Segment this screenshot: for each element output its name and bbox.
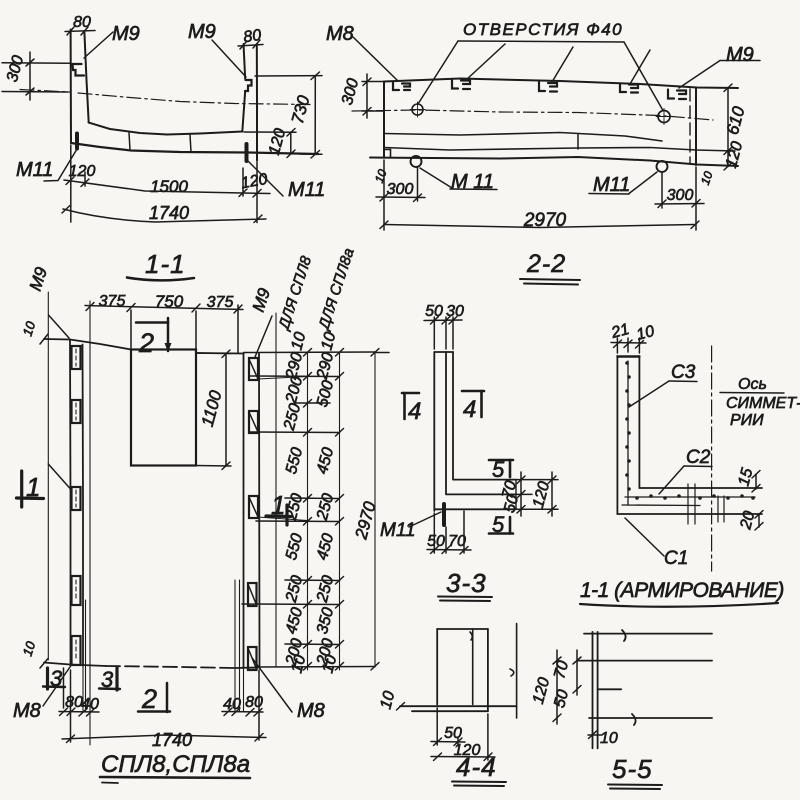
svg-text:М9: М9 <box>726 44 754 66</box>
L leg inner line <box>639 356 762 488</box>
svg-text:70: 70 <box>448 533 466 550</box>
chain1 values <box>281 330 310 675</box>
svg-text:120: 120 <box>69 163 96 180</box>
dim 120 <box>431 714 495 761</box>
dim 2970 <box>380 210 699 231</box>
right 120 dim line <box>266 127 295 158</box>
right wall outer line <box>256 44 258 161</box>
ext line left wall bottom <box>85 600 87 712</box>
section mark 2 bottom <box>138 683 170 714</box>
vertical line 1 <box>436 629 438 705</box>
bottom dims 40/80 right <box>222 694 263 716</box>
right dims 70/50 <box>499 472 558 516</box>
svg-text:1: 1 <box>26 472 40 502</box>
right wall inner line <box>242 44 245 132</box>
leader M11 left <box>44 149 77 181</box>
SECTION-A : section 1-1 top-left <box>2 14 325 223</box>
horizontal top with break <box>584 630 712 641</box>
right 610/120 dim <box>723 84 749 170</box>
plan bottom edge extension <box>259 666 375 669</box>
title 2-2 <box>520 250 580 285</box>
svg-text:ОТВЕРСТИЯ Ф40: ОТВЕРСТИЯ Ф40 <box>463 20 623 39</box>
dim 20 right <box>737 509 763 532</box>
chain ticks row 666 <box>304 663 380 671</box>
svg-text:1740: 1740 <box>149 203 189 223</box>
fan leader to mark B <box>466 44 505 80</box>
section mark 3 right <box>99 667 120 692</box>
svg-text:2: 2 <box>141 684 157 714</box>
anchor M11 right tick <box>245 144 249 161</box>
left wall top dim 80 <box>65 14 95 35</box>
left wall outer line <box>70 30 72 144</box>
anchor circle bottom-right <box>657 161 668 172</box>
slab joint tick 1 <box>129 133 130 151</box>
svg-text:М9: М9 <box>188 21 216 43</box>
section mark 3 left <box>43 666 65 691</box>
dim 70/50 left <box>551 650 581 710</box>
slab bottom edge <box>71 143 318 154</box>
vertical line right boundary <box>510 624 517 719</box>
svg-text:4: 4 <box>408 398 421 425</box>
svg-text:М8: М8 <box>297 700 325 722</box>
dim 1740 bottom <box>62 670 266 750</box>
hole circle right <box>658 111 670 123</box>
plan top edge extension to chains <box>244 351 376 354</box>
left bottom step <box>384 150 391 158</box>
section mark 5 top <box>489 457 513 482</box>
dim 10 bottom <box>588 730 618 747</box>
ext line pair right wall bottom <box>235 580 240 712</box>
title 4-4 <box>452 752 506 786</box>
bottom dim extensions <box>71 145 257 223</box>
mesh C2 line <box>622 504 700 507</box>
chain line 2 <box>339 352 341 670</box>
svg-text:1740: 1740 <box>152 730 192 750</box>
right 730 dim line <box>288 72 320 158</box>
chain tick row 403 <box>296 400 330 408</box>
svg-text:М9: М9 <box>112 23 140 45</box>
svg-text:50: 50 <box>425 303 443 320</box>
title 5-5 <box>608 754 662 789</box>
opening rectangle <box>131 350 196 466</box>
chain line 1 <box>307 352 309 670</box>
embed mark B <box>452 80 470 90</box>
dim 120 left <box>530 650 561 724</box>
svg-text:3: 3 <box>101 667 114 692</box>
left 300 dim line <box>4 52 34 100</box>
M9 extension line left <box>47 292 49 660</box>
bottom dim line 1740 <box>62 203 266 223</box>
svg-text:40: 40 <box>81 696 99 713</box>
leader to left plate 3 <box>48 464 70 489</box>
chain ticks row 578 <box>285 577 344 585</box>
leader M11 <box>409 512 441 527</box>
dim 15 right <box>735 466 760 492</box>
section mark 4 left <box>402 393 421 425</box>
right plate 2 <box>249 411 258 433</box>
anchor M11 tick <box>442 504 446 525</box>
left wall outer line <box>69 340 72 667</box>
svg-text:80: 80 <box>242 27 262 46</box>
leader M11 right <box>589 193 629 196</box>
bottom dim 50/70 <box>427 511 471 554</box>
body right inner line <box>689 89 691 164</box>
chain ticks row 602 <box>242 601 344 609</box>
horizontal line short <box>412 710 488 712</box>
L leg top edge <box>617 355 639 357</box>
left 300 vertical dim <box>339 74 386 118</box>
bottom dim line 120/1500/120 <box>64 163 270 197</box>
svg-text:СПЛ8,СПЛ8а: СПЛ8,СПЛ8а <box>101 751 250 778</box>
interior line lower <box>384 148 735 152</box>
leader to right hole <box>624 42 663 111</box>
dim ext line x90 <box>89 301 91 745</box>
L leg outer line <box>617 356 762 514</box>
mesh C3 vertical line with bars <box>625 361 631 505</box>
embed plate step M9 right <box>245 80 252 91</box>
left wall inner line <box>84 32 88 123</box>
right plate 5 <box>248 647 257 670</box>
leader M9 left <box>84 32 113 58</box>
vertical line 2 with break <box>470 629 473 705</box>
L profile right end <box>515 480 517 510</box>
svg-text:30: 30 <box>446 303 464 320</box>
right 730 dim extension lines <box>255 76 322 155</box>
vertical line 3 <box>487 629 489 711</box>
leader M11 right <box>248 161 283 196</box>
svg-text:2: 2 <box>138 328 154 358</box>
label Os' simmetrii <box>720 376 800 429</box>
title 1-1 (ARMIROVANIE) <box>580 579 784 607</box>
horizontal short <box>598 688 622 690</box>
chain ticks row 432 <box>249 429 344 437</box>
wall double line <box>593 632 598 749</box>
tick top-left corner <box>40 334 48 344</box>
title SPL8,SPL8a <box>100 751 250 783</box>
right 300 bottom dim <box>655 167 704 230</box>
chain ext line M9 right <box>275 313 277 667</box>
horizontal second <box>577 660 712 662</box>
horizontal line long <box>400 705 517 707</box>
svg-text:300: 300 <box>667 187 694 204</box>
top edge <box>437 628 488 630</box>
leader M9 left <box>49 315 70 338</box>
section mark 1 right <box>266 490 291 525</box>
section mark 4 right <box>462 391 484 423</box>
break marks <box>688 484 695 524</box>
SECTION-D : section 3-3 <box>376 303 558 601</box>
leader M11 left <box>450 188 497 191</box>
section mark 5 bottom <box>489 512 513 537</box>
left 300 dim extension lines <box>2 63 70 92</box>
leader to left hole <box>418 41 458 104</box>
svg-text:4-4: 4-4 <box>456 752 497 782</box>
svg-text:300: 300 <box>387 181 414 198</box>
interior line mid <box>384 133 662 142</box>
embed mark D <box>620 84 638 93</box>
svg-text:М8: М8 <box>13 700 41 722</box>
L profile outer lines <box>434 352 516 511</box>
svg-text:Ось: Ось <box>738 376 767 393</box>
interior line upper (dash-dot centerline) <box>352 110 713 120</box>
svg-text:5-5: 5-5 <box>612 754 653 784</box>
leader M8 left <box>43 667 70 706</box>
left plate 4 <box>72 576 81 605</box>
right wall top dim 80 <box>238 27 263 49</box>
left plate 5 <box>72 636 81 665</box>
anchor circle bottom-left <box>411 156 422 167</box>
svg-text:2970: 2970 <box>523 210 567 231</box>
hole circle left <box>412 104 423 115</box>
svg-text:375: 375 <box>207 294 234 311</box>
svg-text:М11: М11 <box>16 159 53 181</box>
section mark 1 left <box>17 471 44 507</box>
svg-text:50: 50 <box>427 533 445 550</box>
left wall inner line <box>82 345 85 667</box>
chain ticks row 376 <box>249 373 344 381</box>
svg-text:М11: М11 <box>593 174 630 196</box>
plan bottom edge <box>44 663 106 667</box>
chain2 values <box>314 330 341 675</box>
fan leader to mark D <box>630 50 650 84</box>
right wall outer line <box>258 354 261 668</box>
svg-text:С1: С1 <box>664 548 688 569</box>
body right edge <box>695 88 697 166</box>
svg-text:РИИ: РИИ <box>730 412 764 429</box>
svg-text:40: 40 <box>223 696 241 713</box>
left 300 bottom dim <box>376 160 425 230</box>
right plate 4 <box>248 583 257 606</box>
tick bottom-left corner <box>40 659 48 669</box>
chain line 2970 <box>374 352 376 667</box>
embed mark C <box>539 82 557 92</box>
svg-text:4: 4 <box>463 396 476 423</box>
svg-text:80: 80 <box>245 694 263 711</box>
leader M9 right <box>212 40 246 77</box>
top dim 50/30 <box>424 303 464 349</box>
svg-text:10: 10 <box>600 730 618 747</box>
right wall inner line <box>243 354 245 668</box>
title 1-1 <box>127 249 194 280</box>
embed mark E <box>668 90 686 100</box>
slab joint tick 2 <box>190 135 191 153</box>
svg-text:М8: М8 <box>326 23 354 45</box>
L profile top edge <box>434 351 453 353</box>
right dim 120 <box>530 472 556 516</box>
mesh C1 horizontal line with bars <box>625 494 755 500</box>
stray tick left of top edge <box>376 352 389 354</box>
dim 50 <box>431 708 465 746</box>
embed mark A <box>393 83 410 91</box>
svg-text:М11: М11 <box>288 179 325 201</box>
section mark 2 top <box>136 318 172 358</box>
label C3 <box>629 362 697 407</box>
body left edge <box>383 82 385 158</box>
svg-text:50: 50 <box>444 725 462 742</box>
leader M8 right <box>253 659 293 713</box>
svg-text:1-1 (АРМИРОВАНИЕ): 1-1 (АРМИРОВАНИЕ) <box>580 579 784 602</box>
svg-text:С2: С2 <box>686 447 711 468</box>
svg-text:750: 750 <box>155 292 184 311</box>
SECTION-C : plan view <box>13 246 380 783</box>
anchor M11 left tick <box>75 134 79 149</box>
svg-text:80: 80 <box>73 14 91 31</box>
symmetry axis dash-dot <box>711 346 713 571</box>
dim 1100 <box>196 350 231 470</box>
svg-text:5: 5 <box>492 457 505 482</box>
SECTION-F : section 4-4 <box>377 624 516 787</box>
mid joint tick <box>577 134 579 149</box>
SECTION-E : 1-1 armirovanie <box>580 321 800 607</box>
leader M9 right <box>255 316 272 357</box>
right plate 1 <box>249 358 308 380</box>
label C2 <box>659 447 712 494</box>
svg-text:2-2: 2-2 <box>526 250 566 278</box>
body top edge <box>384 79 738 89</box>
svg-text:1-1: 1-1 <box>145 249 186 279</box>
leader M8 <box>353 37 397 80</box>
fan leader to mark C <box>552 47 573 82</box>
left plate 3 <box>72 487 81 510</box>
label C1 <box>625 518 688 569</box>
svg-text:3-3: 3-3 <box>446 568 487 598</box>
top dim 21/10 <box>609 321 657 353</box>
left plate 2 <box>72 400 81 423</box>
svg-text:375: 375 <box>99 293 126 310</box>
title 3-3 <box>438 568 492 601</box>
centerline dash-dot <box>20 90 310 105</box>
right 120 dim extension <box>244 131 296 133</box>
body bottom edge <box>370 157 738 166</box>
embed plate step M9 left <box>73 64 85 76</box>
slab top edge <box>89 123 243 135</box>
wall line extensions below plan <box>83 667 244 711</box>
svg-text:СИММЕТ-: СИММЕТ- <box>726 395 800 412</box>
SECTION-B : section 2-2 top-right <box>326 20 760 285</box>
leader M9 <box>720 60 760 62</box>
chain ticks row 641 <box>285 641 344 649</box>
svg-text:1500: 1500 <box>150 177 188 196</box>
SECTION-G : section 5-5 <box>530 630 712 789</box>
L profile middle lines <box>446 352 516 494</box>
right plate 3 <box>249 496 308 521</box>
svg-text:5: 5 <box>492 512 505 537</box>
break marks near axis <box>718 496 724 522</box>
left plate 1 <box>72 346 81 369</box>
bottom dims 80/40 left <box>59 668 99 716</box>
chain ticks row 520 <box>256 518 344 526</box>
label underline <box>458 41 624 42</box>
top dim line 375/750/375 <box>85 292 243 353</box>
L profile inner lines <box>453 352 516 480</box>
svg-text:С3: С3 <box>671 362 696 383</box>
horizontal bottom with break <box>589 714 712 725</box>
left end tick and 10 label <box>377 689 404 711</box>
chain ticks row 498 <box>285 495 344 503</box>
plan top edge <box>44 339 244 354</box>
chain ticks row 352 <box>304 349 380 357</box>
svg-text:М11: М11 <box>380 520 416 541</box>
